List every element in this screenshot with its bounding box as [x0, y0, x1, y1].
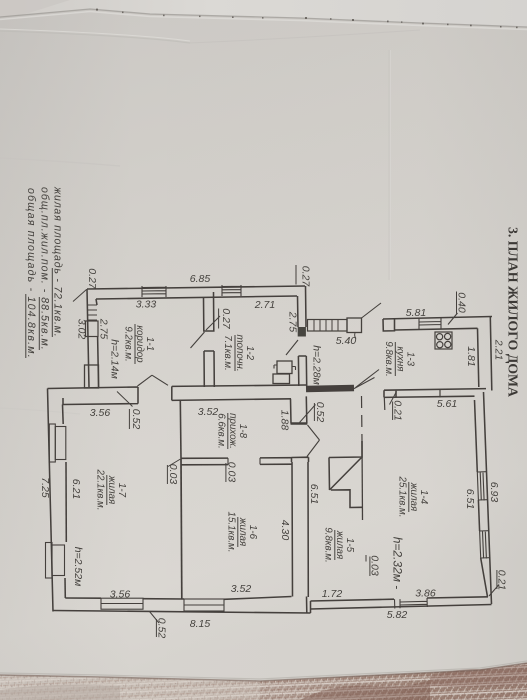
window bottom 1-7: [101, 598, 143, 609]
svg-text:0.21: 0.21: [392, 400, 404, 420]
thick wall: 1-4 top / kitchen bottom: [384, 389, 486, 398]
svg-text:5.81: 5.81: [406, 307, 426, 319]
tick wall joint at x441: [439, 390, 441, 398]
underline 0.21 bottom-right: [496, 570, 498, 589]
window kitchen top: [419, 318, 441, 330]
vent box annex left lower: [85, 365, 99, 388]
svg-text:3.33: 3.33: [136, 299, 157, 311]
svg-text:6.21: 6.21: [70, 479, 82, 499]
svg-text:3. ПЛАН ЖИЛОГО ДОМА: 3. ПЛАН ЖИЛОГО ДОМА: [505, 227, 520, 398]
wall: main left outer: [48, 389, 54, 612]
leader 0.03 left: [168, 459, 181, 467]
wall fill: 1-2 right end cap: [298, 327, 306, 337]
boiler stubs: [274, 365, 296, 370]
paper creases: [0, 31, 190, 43]
wall: step connector: [307, 597, 311, 614]
svg-text:6.85: 6.85: [190, 273, 211, 285]
svg-text:1.81: 1.81: [465, 346, 477, 366]
svg-text:жилая: жилая: [408, 482, 419, 512]
wall: annex top outer: [87, 286, 305, 289]
jamb ticks прихож door: [228, 458, 260, 465]
room 1-4 жилая: [397, 476, 430, 518]
leg at left end of 1-4 top wall: [383, 397, 386, 410]
wall 1-6/1-5: [292, 462, 308, 597]
door leaf 1-1/1-2: [191, 332, 205, 348]
underline 0.52 прихож: [313, 403, 315, 421]
kitchen top wall outer: [383, 317, 492, 320]
печь square: [329, 441, 362, 490]
partition 1-1/1-2 lower: [204, 351, 214, 387]
svg-text:0.27: 0.27: [220, 308, 232, 330]
svg-text:25.1кв.м.: 25.1кв.м.: [397, 476, 408, 518]
svg-text:0.40: 0.40: [456, 292, 468, 313]
room 1-3 кухня: [383, 341, 416, 377]
dark corner top-left of table: [0, 0, 70, 22]
box under annex left window: [86, 321, 99, 337]
svg-text:7.1кв.м.: 7.1кв.м.: [222, 335, 233, 371]
svg-text:5.40: 5.40: [336, 335, 357, 347]
svg-text:2.21: 2.21: [493, 339, 505, 360]
svg-text:3.56: 3.56: [110, 589, 131, 601]
kitchen top wall inner: [395, 328, 478, 330]
svg-text:0.03: 0.03: [226, 462, 238, 483]
svg-text:9.2кв.м.: 9.2кв.м.: [123, 326, 134, 362]
wall: right inner upper: [475, 400, 478, 472]
svg-text:кухня: кухня: [395, 346, 406, 372]
door leaf open to kitchen yard: [354, 378, 375, 389]
door leaf 1-2 right: [286, 340, 298, 355]
svg-text:прихож.: прихож.: [227, 413, 238, 449]
svg-text:h=2.32м -: h=2.32м -: [391, 537, 405, 590]
svg-text:4.30: 4.30: [279, 520, 291, 541]
door V прихож to 1-5: [307, 425, 320, 457]
darker patches in fabric right: [300, 680, 430, 700]
underline 0.21 top: [392, 402, 394, 421]
window right wall lower: [480, 531, 490, 559]
svg-text:жилая: жилая: [106, 475, 117, 505]
wall: main left inner: [62, 405, 65, 425]
svg-text:1.88: 1.88: [279, 410, 291, 431]
leader 0.27 top right: [295, 265, 297, 285]
svg-text:0.27: 0.27: [300, 266, 312, 288]
svg-text:0.52: 0.52: [130, 409, 142, 430]
wall: dark bar прихож to kitchen: [306, 388, 354, 389]
svg-text:0.27: 0.27: [86, 268, 98, 290]
underline 104.8кв.м.: [25, 294, 27, 358]
wall: main left inner low: [64, 578, 66, 598]
window W1 annex top: [142, 286, 166, 297]
svg-text:7.25: 7.25: [39, 477, 51, 498]
wall: annex left outer: [87, 289, 89, 387]
svg-text:3.52: 3.52: [231, 583, 252, 595]
wall: 1-2 right lower segment: [298, 356, 306, 386]
svg-text:топочн.: топочн.: [234, 334, 245, 371]
window 1-7 left lower: [46, 543, 65, 579]
underline 0.03 left: [166, 465, 168, 484]
wall: annex left inner lower: [98, 337, 99, 388]
window bottom 1-6: [184, 599, 224, 611]
svg-text:3.86: 3.86: [415, 588, 436, 600]
svg-text:h=2.52м: h=2.52м: [72, 547, 84, 587]
wall: bottom left outer: [53, 611, 311, 614]
svg-text:22.1кв.м.: 22.1кв.м.: [95, 469, 106, 511]
wall: annex left inner: [96, 299, 97, 305]
wall: bottom right inner: [311, 597, 489, 601]
boiler lower box: [273, 374, 290, 384]
svg-text:0.52: 0.52: [314, 402, 326, 423]
wall: right outer: [484, 392, 492, 604]
window right wall upper: [477, 472, 487, 501]
svg-text:6.6кв.м.: 6.6кв.м.: [216, 413, 227, 449]
svg-text:3.52: 3.52: [198, 406, 219, 418]
boiler upper box: [277, 361, 292, 374]
leader 0.21 top: [390, 392, 397, 405]
room 1-8 прихож: [216, 413, 249, 449]
wall: bottom left inner: [65, 597, 291, 600]
svg-text:жилая: жилая: [237, 517, 248, 547]
thick wall: annex/1-7 top band: [48, 387, 139, 405]
leader 0.52 at 1-7 top wall: [117, 392, 133, 407]
svg-text:3.02: 3.02: [76, 319, 88, 340]
svg-text:1.72: 1.72: [322, 588, 343, 600]
room 1-6 жилая: [226, 512, 259, 553]
tick 0.03 near печь: [365, 555, 367, 562]
thick wall: прихож top band: [172, 385, 306, 400]
kitchen right wall inner: [478, 328, 479, 387]
svg-text:9.8кв.м.: 9.8кв.м.: [323, 527, 334, 563]
underline 0.03 mid: [225, 463, 227, 482]
печь steps: [331, 490, 362, 508]
wall: right inner low: [481, 558, 488, 597]
kitchen door leaf: [356, 370, 380, 388]
svg-text:жилая: жилая: [334, 530, 345, 560]
svg-text:5.82: 5.82: [387, 609, 408, 621]
svg-text:общ.пл.жил.пом. - 88.5кв.м.: общ.пл.жил.пом. - 88.5кв.м.: [39, 187, 51, 350]
window W2 annex top: [222, 285, 241, 296]
svg-text:3.56: 3.56: [90, 407, 111, 419]
room 1-5 жилая: [323, 527, 356, 563]
leader 0.40 vertical: [456, 292, 458, 314]
svg-text:9.8кв.м.: 9.8кв.м.: [383, 341, 394, 377]
прихож right wall cap: [291, 422, 308, 425]
underline 88.5кв.м.: [38, 297, 40, 350]
wall: прихож left: [179, 400, 182, 458]
svg-text:15.1кв.м.: 15.1кв.м.: [226, 512, 237, 553]
leader 0.27 top left: [73, 290, 87, 302]
svg-text:2.75: 2.75: [98, 318, 110, 340]
wall: right inner mid: [478, 500, 479, 531]
dashed partition 1-5/1-4: [361, 396, 364, 441]
wall: annex top inner: [96, 296, 297, 299]
underline 0.03 печь: [369, 557, 371, 577]
svg-text:8.15: 8.15: [190, 618, 211, 630]
svg-text:5.61: 5.61: [437, 398, 457, 410]
kitchen top wall left cap: [383, 319, 395, 331]
svg-text:общая площадь - 104.8кв.м.: общая площадь - 104.8кв.м.: [25, 188, 37, 358]
svg-text:6.93: 6.93: [488, 482, 500, 503]
leader 0.21 bottom right: [489, 585, 499, 597]
svg-text:0.03: 0.03: [167, 464, 179, 485]
svg-text:h=2.28м: h=2.28м: [311, 345, 323, 385]
svg-text:2.75: 2.75: [287, 311, 299, 333]
background strip above paper: [0, 0, 527, 40]
underline 0.52 1-7 wall: [128, 409, 130, 429]
прихож right wall: [291, 396, 307, 423]
прихож bottom wall: [181, 458, 292, 465]
paper bottom edge shadow: [0, 663, 527, 681]
wall 1-7/1-6: [180, 458, 183, 598]
печь vertical solid: [361, 441, 364, 520]
window 1-7 left upper: [49, 424, 66, 462]
light overlay left fabric: [0, 675, 260, 700]
svg-text:6.51: 6.51: [308, 484, 320, 504]
gas stove: [435, 332, 452, 349]
fabric at bottom: [0, 663, 527, 700]
svg-text:h=2.14м: h=2.14м: [109, 339, 121, 379]
wall: 1-2 right upper: [298, 286, 307, 327]
porch hatch bar: [308, 320, 348, 332]
svg-text:жилая площадь - 72.1кв.м.: жилая площадь - 72.1кв.м.: [52, 186, 64, 337]
svg-text:коридор: коридор: [134, 325, 145, 363]
svg-text:6.51: 6.51: [464, 489, 476, 509]
wall: main left inner mid: [65, 462, 67, 542]
leader 0.52 bottom windows: [150, 612, 160, 624]
porch door arc: [355, 333, 356, 339]
room 1-7 жилая: [95, 469, 128, 511]
wall 1-6/1-5 top cap: [292, 457, 309, 462]
partition 1-1/1-2 upper: [204, 292, 214, 331]
door swing pair коридор: [138, 375, 169, 386]
room 1-2 топочн: [222, 334, 255, 371]
window: annex left wall hatch: [87, 305, 97, 320]
leader 0.40 diagonal: [448, 313, 458, 325]
edge speckles: [96, 9, 518, 29]
underline 0.27 partition: [218, 309, 220, 329]
kitchen right wall outer: [490, 317, 492, 391]
porch landing box: [347, 318, 362, 333]
svg-text:2.71: 2.71: [254, 299, 275, 311]
room 1-1 коридор: [123, 324, 156, 364]
leader 0.27 partition: [206, 316, 220, 330]
leader 0.52 at прихож wall: [300, 405, 316, 423]
paper edge shadow top: [0, 9, 527, 27]
underline 72.1кв.м.: [51, 268, 53, 337]
window bottom 1-5: [395, 598, 428, 609]
porch diagonal: [362, 303, 382, 318]
wall: bottom right outer: [311, 605, 492, 610]
svg-text:0.52: 0.52: [156, 618, 168, 639]
